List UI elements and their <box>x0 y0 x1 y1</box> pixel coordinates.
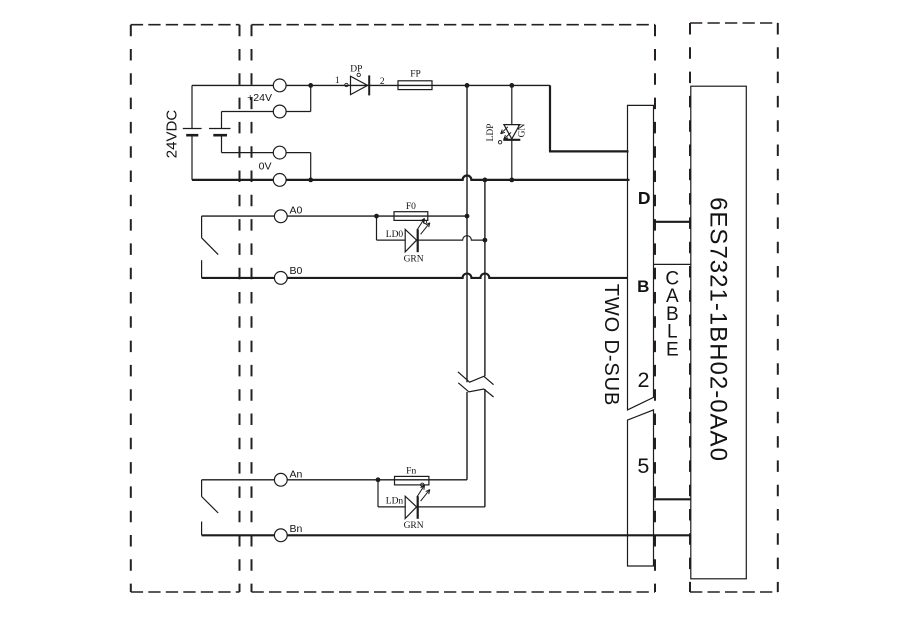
svg-text:GN: GN <box>518 124 528 138</box>
svg-text:A0: A0 <box>290 204 303 216</box>
svg-text:LDP: LDP <box>486 124 496 142</box>
svg-text:B: B <box>637 277 649 296</box>
svg-text:An: An <box>290 469 303 481</box>
svg-text:GRN: GRN <box>404 521 424 531</box>
svg-text:LD0: LD0 <box>386 230 404 240</box>
svg-text:TWO D-SUB: TWO D-SUB <box>600 284 622 407</box>
svg-text:B0: B0 <box>290 265 303 277</box>
svg-text:24VDC: 24VDC <box>164 110 181 159</box>
svg-text:Bn: Bn <box>290 523 303 535</box>
svg-text:6ES7321-1BH02-0AA0: 6ES7321-1BH02-0AA0 <box>705 197 732 462</box>
svg-text:2: 2 <box>380 77 385 87</box>
svg-text:F0: F0 <box>406 202 416 212</box>
svg-text:DP: DP <box>350 65 362 75</box>
svg-text:GRN: GRN <box>404 254 424 264</box>
svg-text:5: 5 <box>637 454 649 478</box>
svg-text:FP: FP <box>410 70 421 80</box>
svg-text:2: 2 <box>638 368 650 392</box>
svg-text:0V: 0V <box>259 160 272 172</box>
svg-text:+24V: +24V <box>247 92 272 104</box>
svg-text:Fn: Fn <box>406 467 416 477</box>
svg-text:LDn: LDn <box>386 497 404 507</box>
svg-text:D: D <box>638 188 651 208</box>
svg-text:E: E <box>666 339 679 360</box>
svg-text:1: 1 <box>335 76 340 86</box>
